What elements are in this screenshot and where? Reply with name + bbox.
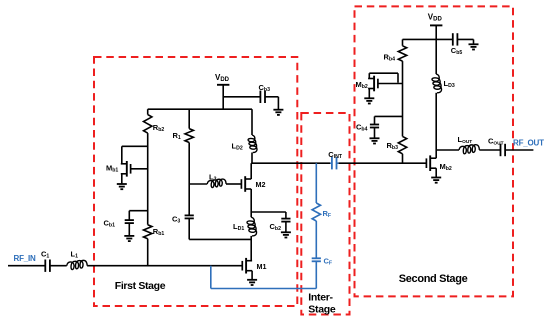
label COUT — [488, 136, 504, 146]
wire COUT to output — [505, 149, 533, 151]
capacitor Cb4 — [370, 125, 379, 128]
wire node to LD1 — [250, 212, 252, 217]
capacitor COUT — [501, 144, 506, 156]
wire L3 to M2 gate — [226, 183, 241, 185]
svg-text:RF_IN: RF_IN — [14, 254, 37, 263]
svg-text:Rb3: Rb3 — [387, 141, 399, 151]
svg-text:LD2: LD2 — [232, 142, 243, 152]
label M2 — [256, 180, 266, 189]
label Rb4 — [384, 52, 396, 62]
svg-text:R1: R1 — [173, 131, 181, 141]
label R1 — [173, 131, 181, 141]
label L3 — [209, 172, 217, 182]
wire Rb4 to Rb3 — [402, 61, 404, 136]
svg-text:Mb1: Mb1 — [106, 164, 118, 174]
wire L3 branch — [189, 183, 207, 185]
power VDD (first stage) — [217, 85, 229, 109]
svg-text:LD3: LD3 — [444, 79, 455, 89]
label Rb3 — [387, 141, 399, 151]
svg-text:Inter-: Inter- — [308, 291, 333, 303]
label Mb2 mirror — [356, 80, 368, 90]
label First Stage — [115, 280, 166, 292]
wire M2 drain up — [250, 163, 252, 179]
wire rail to Cb1 — [129, 211, 147, 220]
label Cb1 — [104, 219, 116, 229]
label Cb2 — [270, 222, 282, 232]
resistor RF — [312, 203, 320, 221]
first stage boundary box (red dashed) — [94, 57, 297, 306]
svg-text:First Stage: First Stage — [115, 280, 166, 292]
wire Cb1 to ground — [128, 223, 130, 236]
ground of Mb2 output — [431, 178, 441, 183]
resistor Rb4 — [398, 46, 406, 61]
transistor Mb2 (mirror) — [368, 76, 378, 92]
transistor Mb2 (output) — [426, 155, 436, 171]
label RF_IN — [14, 254, 37, 263]
capacitor Cb5 — [453, 33, 458, 45]
svg-text:VDD: VDD — [215, 73, 230, 83]
svg-text:RF_OUT: RF_OUT — [513, 138, 544, 147]
wire LD3 to Mb2 drain — [435, 93, 437, 158]
label C1 — [41, 250, 49, 260]
wire rail to LD2 — [251, 109, 253, 135]
inductor LOUT — [459, 145, 479, 154]
label Cb4 — [356, 123, 368, 133]
label Mb2 output — [440, 162, 452, 172]
wire Mb1 drain to rail — [122, 146, 148, 164]
capacitor C1 — [45, 260, 50, 272]
label Rb1 — [153, 227, 165, 237]
wire Rb3 to gate line — [402, 154, 404, 163]
wire bottom node to C3 — [189, 238, 251, 240]
ground of Cb4 — [370, 138, 380, 143]
svg-text:C3: C3 — [172, 215, 180, 225]
wire rail to Rb4 — [402, 39, 404, 45]
power VDD (second stage) — [430, 25, 442, 39]
svg-text:Rb2: Rb2 — [153, 123, 165, 133]
wire rail to R1 — [188, 109, 190, 128]
wire feedback tap down — [210, 266, 212, 289]
inductor LD3 — [432, 74, 442, 93]
wire CINT to Mb2 gate — [339, 162, 427, 164]
svg-text:Rb4: Rb4 — [384, 52, 396, 62]
svg-text:CINT: CINT — [328, 150, 343, 160]
capacitor CINT — [330, 157, 339, 169]
inter-stage boundary box (red dashed) — [301, 113, 349, 315]
svg-text:Cb3: Cb3 — [259, 83, 271, 93]
svg-text:COUT: COUT — [488, 136, 504, 146]
ground of Cb1 — [124, 236, 134, 241]
resistor R1 — [185, 129, 193, 143]
label VDD first stage — [215, 73, 230, 83]
wire drain node to LOUT — [436, 149, 459, 151]
svg-text:LOUT: LOUT — [458, 135, 473, 145]
inductor L1 — [67, 260, 87, 269]
wire Rb1 to input line — [147, 239, 149, 266]
svg-text:C1: C1 — [41, 250, 49, 260]
svg-text:L3: L3 — [209, 172, 217, 182]
wire M2 drain to CINT — [251, 162, 330, 164]
resistor Rb2 — [144, 115, 152, 134]
capacitor Cb2 — [281, 219, 290, 222]
wire Mb2 source to ground — [435, 168, 437, 177]
label LD1 — [233, 222, 244, 232]
svg-text:M2: M2 — [256, 180, 266, 189]
wire Mb2 mirror drain loop — [369, 73, 398, 83]
wire L1 to M1 gate — [87, 265, 242, 267]
wire LD1 to M1 drain — [250, 236, 252, 261]
inductor LD2 — [248, 135, 257, 153]
wire VDD to Cb3 — [223, 96, 260, 98]
svg-text:LD1: LD1 — [233, 222, 244, 232]
capacitor Cb3 — [260, 91, 265, 103]
svg-text:L1: L1 — [71, 250, 79, 260]
wire source node to Cb2 — [251, 212, 286, 219]
ground of M1 — [247, 280, 257, 285]
label Cb3 — [259, 83, 271, 93]
ground of Cb2 — [281, 232, 291, 237]
wire M1 source to ground — [251, 271, 253, 280]
wire Mb2 mirror gate to rail — [378, 83, 403, 85]
transistor M1 — [242, 258, 252, 274]
resistor Rb3 — [398, 136, 406, 153]
ground of Cb5 — [469, 44, 479, 49]
wire Cb4 to ground — [374, 128, 376, 139]
label RF_OUT — [513, 138, 544, 147]
wire Cb2 to ground — [285, 222, 287, 233]
svg-text:Rb1: Rb1 — [153, 227, 165, 237]
capacitor C3 — [185, 215, 194, 218]
wire Cb5 to ground — [457, 39, 473, 44]
label M1 — [257, 262, 267, 271]
resistor Rb1 — [144, 225, 152, 239]
inductor LD1 — [247, 217, 257, 236]
capacitor CF — [312, 258, 321, 261]
svg-text:Stage: Stage — [308, 304, 336, 316]
wire rail to Cb4 — [375, 116, 403, 124]
svg-text:M1: M1 — [257, 262, 267, 271]
label Mb1 — [106, 164, 118, 174]
label CF — [324, 257, 333, 267]
wire second stage top rail — [403, 38, 453, 40]
svg-text:Cb2: Cb2 — [270, 222, 282, 232]
label CINT — [328, 150, 343, 160]
wire LD2 to drain node — [251, 153, 253, 164]
wire C1 to L1 — [50, 265, 67, 267]
svg-text:Mb2: Mb2 — [356, 80, 368, 90]
wire VDD to LD3 — [435, 39, 437, 74]
svg-text:Cb1: Cb1 — [104, 219, 116, 229]
svg-text:VDD: VDD — [428, 13, 443, 23]
wire feedback up to CF — [315, 261, 317, 288]
capacitor Cb1 — [125, 220, 134, 223]
label LD3 — [444, 79, 455, 89]
second stage boundary box (red dashed) — [355, 6, 514, 296]
svg-text:Cb4: Cb4 — [356, 123, 368, 133]
svg-text:Cb5: Cb5 — [451, 46, 463, 56]
wire Mb1 source to ground — [121, 174, 123, 184]
wire feedback bottom — [211, 288, 316, 290]
wire LOUT to COUT — [479, 149, 500, 151]
wire Rb2 to Rb1 — [147, 133, 149, 225]
wire Cb3 to ground — [265, 97, 278, 110]
label Cb5 — [451, 46, 463, 56]
svg-text:RF: RF — [323, 209, 332, 219]
wire RF to interstage line — [315, 163, 317, 203]
wire rail to Rb2 — [147, 109, 149, 114]
transistor M2 — [241, 176, 251, 192]
label C3 — [172, 215, 180, 225]
ground of Mb2 mirror — [364, 98, 374, 103]
wire Mb2 mirror source to ground — [368, 89, 370, 99]
inductor L3 — [207, 179, 226, 187]
wire C3 to bottom node — [188, 218, 190, 239]
transistor Mb1 — [121, 161, 131, 177]
wire first stage top rail — [148, 108, 252, 110]
label LOUT — [458, 135, 473, 145]
svg-text:Second Stage: Second Stage — [399, 273, 468, 285]
wire input to C1 — [8, 265, 45, 267]
svg-text:CF: CF — [324, 257, 333, 267]
wire Mb1 gate to rail — [131, 168, 148, 170]
label Inter-Stage — [308, 291, 336, 315]
label VDD second stage — [428, 13, 443, 23]
wire CF to RF — [315, 221, 317, 258]
label Rb2 — [153, 123, 165, 133]
label L1 — [71, 250, 79, 260]
label RF — [323, 209, 332, 219]
ground of Cb3 — [273, 110, 283, 115]
wire M2 source down — [250, 189, 252, 212]
ground of Mb1 — [117, 184, 127, 189]
wire R1 to C3 — [188, 143, 190, 216]
label Second Stage — [399, 273, 468, 285]
label LD2 — [232, 142, 243, 152]
svg-text:Mb2: Mb2 — [440, 162, 452, 172]
